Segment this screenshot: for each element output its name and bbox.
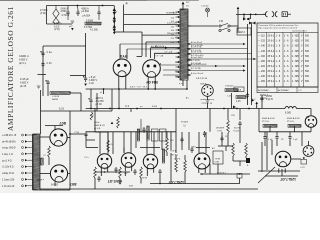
resistor R30 xyxy=(85,22,101,25)
resistor R22 xyxy=(288,124,301,127)
wire xyxy=(67,6,69,11)
wire xyxy=(0,0,125,1)
wire xyxy=(239,127,241,143)
wire lower xyxy=(47,23,73,25)
capacitor xyxy=(84,132,87,138)
wire xyxy=(232,156,234,161)
transformer T2 output xyxy=(33,134,40,190)
wire drop xyxy=(135,132,137,148)
capacitor u25 xyxy=(142,127,145,133)
wire mains xyxy=(188,25,218,27)
tube socket X2 xyxy=(303,146,314,157)
wire drop xyxy=(112,132,114,150)
tap arrow xyxy=(25,166,28,168)
transformer lead arrow xyxy=(178,56,180,58)
junction xyxy=(109,108,111,110)
tube socket spare xyxy=(202,85,214,97)
wire xyxy=(243,14,245,19)
resistor xyxy=(107,140,110,152)
wire bend xyxy=(141,32,143,56)
arrow xyxy=(187,69,189,71)
table footer box xyxy=(257,87,318,93)
wire cathode lead xyxy=(125,76,127,89)
tube V4a 12SL7 envelope xyxy=(143,154,157,168)
wire xyxy=(90,89,92,98)
wire top bus xyxy=(47,5,115,7)
wire xyxy=(310,109,312,116)
wire heater 5V xyxy=(146,41,180,43)
wire bend xyxy=(145,42,147,57)
wire xyxy=(198,132,200,153)
wire drop xyxy=(175,132,177,153)
wire xyxy=(231,93,233,109)
wire xyxy=(230,25,238,27)
tap arrow xyxy=(25,178,28,180)
tap jack xyxy=(22,147,24,149)
wire xyxy=(32,134,34,190)
transformer secondary lead xyxy=(187,25,191,27)
resistor xyxy=(119,167,122,178)
transformer lead arrow xyxy=(178,37,180,39)
junction xyxy=(118,88,120,90)
wire xyxy=(54,182,56,186)
transformer secondary lead xyxy=(187,59,191,61)
capacitor C17 xyxy=(97,10,100,16)
tap jack xyxy=(22,178,24,180)
wire xyxy=(111,89,113,111)
wire xyxy=(261,95,263,109)
wire drop xyxy=(130,132,132,153)
arrow down xyxy=(113,32,116,34)
capacitor C15 xyxy=(66,10,69,16)
wire xyxy=(137,56,143,58)
table column rule xyxy=(282,32,284,87)
wire xyxy=(86,139,95,141)
junction xyxy=(201,173,203,175)
junction xyxy=(103,88,105,90)
switch S2 contacts xyxy=(243,18,250,21)
transformer T1 power xyxy=(180,9,188,80)
wire xyxy=(118,89,120,109)
junction xyxy=(147,88,149,90)
wire bottom bus xyxy=(40,188,258,190)
tap jack xyxy=(22,185,24,187)
wire xyxy=(95,131,108,133)
arrow xyxy=(165,46,168,49)
wire drop xyxy=(153,132,155,155)
resistor R25 xyxy=(236,96,246,99)
wire xyxy=(207,96,209,100)
tube V6 indicator xyxy=(305,116,317,128)
transformer lead arrow xyxy=(178,76,180,78)
junction xyxy=(251,22,253,24)
tap jack xyxy=(22,166,24,168)
box LC3 xyxy=(301,160,307,165)
chassis mark xyxy=(182,2,185,5)
wire secondary xyxy=(188,53,252,55)
wire secondary 40mV xyxy=(188,43,244,45)
transformer lead arrow xyxy=(178,16,180,18)
table column rule xyxy=(274,32,276,87)
wire xyxy=(140,147,160,149)
wire xyxy=(90,104,92,109)
wire xyxy=(209,109,211,132)
wire xyxy=(294,126,296,132)
transformer secondary lead xyxy=(187,48,191,50)
resistor xyxy=(90,112,93,120)
transformer lead arrow xyxy=(178,52,180,54)
selector tap arrow xyxy=(113,25,116,28)
wire xyxy=(146,172,148,176)
junction xyxy=(119,183,121,185)
resistor grid xyxy=(48,146,51,157)
wire xyxy=(43,45,86,47)
wire drop xyxy=(161,132,163,150)
transformer lead arrow xyxy=(178,11,180,13)
box C05 xyxy=(234,87,244,92)
wire xyxy=(289,141,291,147)
wire xyxy=(196,147,210,149)
wire xyxy=(175,155,177,160)
wire xyxy=(258,109,260,132)
selector tap arrow xyxy=(113,8,116,11)
wire drop xyxy=(107,132,109,154)
tap jack xyxy=(22,141,24,143)
arrow xyxy=(187,43,189,45)
wire rail xyxy=(40,90,42,134)
wire xyxy=(217,164,219,174)
capacitor coupling xyxy=(114,167,117,173)
tap arrow xyxy=(25,134,28,136)
wire xyxy=(265,175,298,177)
transformer lead arrow xyxy=(178,29,180,31)
capacitor C4a xyxy=(40,51,44,57)
junction xyxy=(136,108,138,110)
wire xyxy=(258,170,300,172)
ground xyxy=(206,100,210,102)
wire xyxy=(182,80,184,86)
ground xyxy=(71,21,75,23)
wire xyxy=(166,152,168,156)
tube pin xyxy=(278,168,280,172)
connector plug male xyxy=(282,12,288,17)
wire xyxy=(205,132,207,153)
wire selector rail2 xyxy=(123,5,125,33)
wire cathode lead xyxy=(147,77,149,90)
junction xyxy=(247,18,249,20)
wire xyxy=(301,132,303,146)
wire xyxy=(250,14,252,19)
wire xyxy=(120,43,180,45)
junction xyxy=(90,108,92,110)
wire riser xyxy=(69,111,71,134)
wire drop xyxy=(123,132,125,153)
wire cathode lead xyxy=(154,77,156,90)
tube V2 5R4GY envelope xyxy=(143,60,161,78)
resistor xyxy=(227,120,230,133)
transformer lead arrow xyxy=(178,32,180,34)
junction xyxy=(255,14,257,16)
wire drop xyxy=(146,132,148,155)
wire lower bus xyxy=(150,183,240,185)
wire xyxy=(239,109,241,121)
wire xyxy=(67,137,70,139)
capacitor xyxy=(190,147,193,153)
arrow xyxy=(187,59,189,61)
selector tap arrow xyxy=(113,16,116,19)
wire xyxy=(130,109,132,113)
junction xyxy=(223,108,225,110)
wire xyxy=(70,133,85,135)
arrow xyxy=(215,65,218,67)
resistor R21 xyxy=(263,124,277,127)
tube pin xyxy=(198,169,200,173)
wire xyxy=(86,147,98,149)
tube pin xyxy=(204,169,206,173)
junction xyxy=(159,183,161,185)
wire xyxy=(0,0,101,1)
table column rule xyxy=(303,32,305,87)
ground xyxy=(37,86,41,88)
wire xyxy=(188,132,190,150)
wire xyxy=(100,172,102,176)
wire mains tap 1 xyxy=(124,14,180,16)
tap jack xyxy=(22,159,24,161)
selector tap arrow xyxy=(113,12,116,15)
wire xyxy=(276,141,278,147)
connector plug female xyxy=(265,12,267,17)
capacitor xyxy=(246,93,249,99)
arrow xyxy=(237,7,240,9)
tube V1 5Y3 envelope xyxy=(113,59,131,77)
junction xyxy=(186,88,188,90)
wire xyxy=(140,178,142,184)
wire xyxy=(200,173,250,175)
tube pin xyxy=(107,168,109,172)
capacitor xyxy=(180,137,183,143)
wire xyxy=(0,0,147,1)
wire xyxy=(98,16,100,20)
tube V8 807 lower envelope xyxy=(50,165,67,182)
transformer lead arrow xyxy=(178,25,180,27)
wire drop xyxy=(99,132,101,154)
wire xyxy=(166,132,168,138)
capacitor C21 electrolytic xyxy=(83,76,87,82)
capacitor filter xyxy=(263,135,266,141)
box xyxy=(160,129,167,141)
wire xyxy=(261,142,263,172)
transformer lead arrow xyxy=(178,47,180,49)
capacitor filter xyxy=(288,135,291,141)
wire long vertical xyxy=(247,24,249,105)
arrow xyxy=(255,102,258,104)
capacitor coupling xyxy=(158,169,161,175)
arrow xyxy=(243,65,246,67)
wire selector rail xyxy=(113,6,115,33)
switch S1 xyxy=(219,23,230,31)
wire xyxy=(163,74,180,76)
tube V3b 6SN7 envelope xyxy=(121,153,135,167)
capacitor xyxy=(203,131,206,137)
wire HT to choke xyxy=(257,108,285,110)
tube pin xyxy=(153,168,155,172)
table column rule xyxy=(266,32,268,87)
tap jack xyxy=(22,153,24,155)
wire HT bus xyxy=(86,108,257,110)
wire mains tap 2 xyxy=(124,24,180,26)
junction xyxy=(118,108,120,110)
tap jack xyxy=(22,172,24,174)
wire xyxy=(159,175,161,184)
wire heater xyxy=(154,52,180,54)
wire xyxy=(127,48,180,50)
wire bend xyxy=(150,48,152,58)
tap arrow xyxy=(25,153,28,155)
resistor R27 xyxy=(225,89,238,92)
wire xyxy=(291,158,301,160)
transformer secondary lead xyxy=(187,74,191,76)
box xyxy=(152,129,159,141)
component filled xyxy=(246,158,250,163)
tube pin xyxy=(100,168,102,172)
wire xyxy=(188,59,191,61)
wire xyxy=(98,6,100,11)
transformer secondary lead xyxy=(187,53,191,55)
tap arrow xyxy=(25,159,28,161)
wire xyxy=(68,173,70,175)
tap arrow xyxy=(25,146,28,148)
wire xyxy=(46,6,48,25)
wire xyxy=(245,156,247,158)
wire xyxy=(281,169,283,176)
wire xyxy=(239,178,241,183)
wire xyxy=(67,16,69,20)
wire cathode lead xyxy=(118,76,120,89)
wire xyxy=(181,132,183,150)
wire xyxy=(207,12,209,17)
wire xyxy=(233,160,246,162)
transformer lead arrow xyxy=(178,66,180,68)
wire rail xyxy=(85,33,87,76)
wire grid stub xyxy=(54,126,56,129)
wire plate lead xyxy=(126,49,128,59)
wire xyxy=(85,134,87,148)
junction xyxy=(239,173,241,175)
wire xyxy=(170,153,172,184)
wire rail xyxy=(42,46,44,96)
wire xyxy=(103,89,105,94)
wire xyxy=(264,141,266,147)
wire xyxy=(0,0,199,1)
wire 600ohm b xyxy=(188,70,244,72)
resistor R18 xyxy=(50,92,71,95)
wire xyxy=(161,64,181,66)
wire xyxy=(239,161,241,166)
wire xyxy=(269,126,271,132)
wire xyxy=(124,172,126,176)
arrow xyxy=(187,64,189,66)
arrow xyxy=(187,48,189,50)
capacitor C5 xyxy=(45,80,49,86)
transformer lead arrow xyxy=(178,41,180,43)
tap jack xyxy=(22,134,24,136)
wire xyxy=(96,93,98,111)
resistor xyxy=(184,160,187,172)
fuse F1 xyxy=(206,8,210,12)
wire xyxy=(266,132,268,170)
capacitor C20 xyxy=(88,98,92,104)
wire xyxy=(114,31,123,33)
switch S2 contacts xyxy=(249,22,256,25)
wire xyxy=(237,9,239,14)
wire diagonal xyxy=(258,167,275,183)
wire xyxy=(221,132,223,146)
wire xyxy=(227,109,229,121)
wire xyxy=(45,125,63,127)
wire xyxy=(94,178,96,189)
wire xyxy=(94,109,96,133)
wire secondary xyxy=(188,48,248,50)
capacitor C4b xyxy=(41,62,44,68)
wire xyxy=(184,155,186,160)
wire xyxy=(271,140,273,155)
wire mid bus xyxy=(86,131,176,133)
wire xyxy=(124,31,142,33)
junction xyxy=(250,14,252,16)
ground xyxy=(84,84,87,87)
tube pin xyxy=(131,167,133,171)
transformer secondary lead xyxy=(187,64,191,66)
junction xyxy=(243,14,245,16)
wire xyxy=(40,189,70,191)
wire xyxy=(140,119,142,132)
wire bend xyxy=(153,53,155,59)
resistor R10 xyxy=(162,149,164,163)
wire xyxy=(236,13,266,15)
resistor R7 xyxy=(117,117,120,128)
table column rule xyxy=(298,32,300,87)
wire xyxy=(227,133,229,146)
box level xyxy=(213,151,223,164)
resistor xyxy=(175,160,178,172)
arrow xyxy=(233,106,236,109)
tap arrow xyxy=(25,140,28,142)
wire feedback xyxy=(69,134,71,190)
junction xyxy=(69,133,71,135)
wire xyxy=(310,127,312,132)
junction xyxy=(236,108,238,110)
resistor xyxy=(140,167,143,178)
wire long vertical xyxy=(251,24,253,105)
connector plug pair xyxy=(272,12,278,17)
wire xyxy=(163,69,180,71)
table header rule xyxy=(257,31,318,33)
wire 6.3V bus xyxy=(86,88,187,90)
selector tap arrow xyxy=(113,20,116,23)
table frame xyxy=(257,23,318,87)
wire xyxy=(276,132,278,135)
wire plate lead xyxy=(119,44,121,59)
wire xyxy=(107,132,109,140)
arrow pot wiper xyxy=(111,122,114,124)
tube V7 807 upper envelope xyxy=(50,129,67,146)
capacitor C30 xyxy=(260,96,263,102)
arrow xyxy=(187,53,189,55)
wire xyxy=(289,132,291,135)
wire xyxy=(209,164,211,174)
arrow xyxy=(243,43,246,45)
transformer secondary lead xyxy=(187,43,191,45)
